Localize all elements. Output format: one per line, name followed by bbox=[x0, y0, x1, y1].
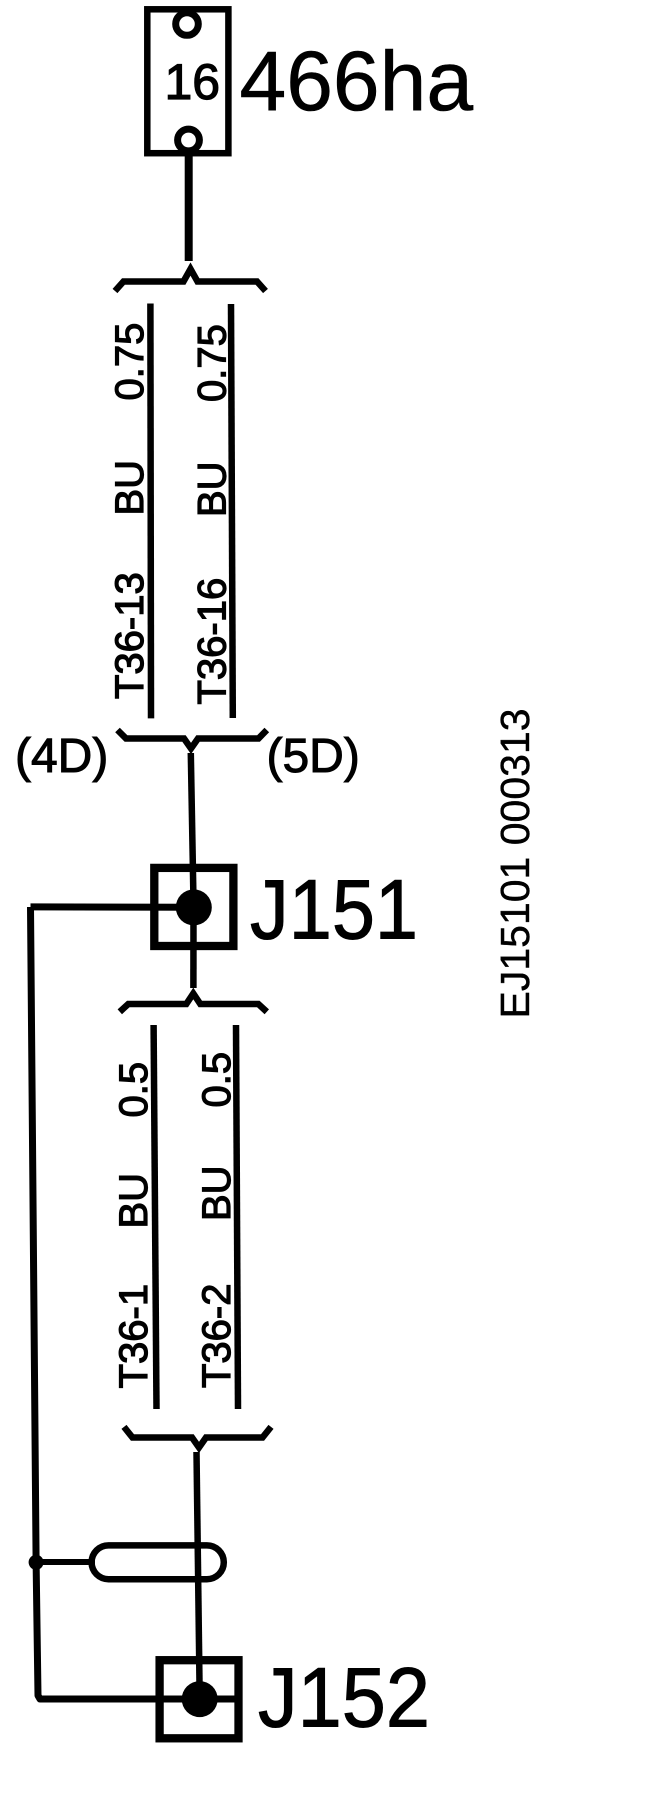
svg-text:BU: BU bbox=[195, 1165, 239, 1221]
wire from junction dot to connector sleeve bbox=[34, 1559, 95, 1565]
svg-text:J151: J151 bbox=[250, 863, 418, 957]
wire from J151 left to ground branch bbox=[31, 903, 194, 910]
svg-text:J152: J152 bbox=[258, 1651, 430, 1745]
svg-text:0.75: 0.75 bbox=[191, 324, 235, 402]
brace 4 (merges two wires) bbox=[124, 1427, 271, 1448]
wire from brace 2 to junction J151 bbox=[191, 753, 194, 907]
wire T36-1 bbox=[154, 1025, 157, 1409]
junction dot on left branch bbox=[29, 1555, 44, 1570]
svg-text:BU: BU bbox=[112, 1173, 156, 1229]
pin terminal top circle bbox=[176, 13, 199, 36]
connector sleeve (capsule) bbox=[92, 1545, 224, 1579]
junction J152 node dot bbox=[182, 1681, 218, 1717]
svg-text:466ha: 466ha bbox=[240, 34, 474, 128]
svg-text:EJ15101 000313: EJ15101 000313 bbox=[492, 708, 538, 1018]
svg-text:T36-1: T36-1 bbox=[112, 1284, 156, 1389]
svg-text:0.5: 0.5 bbox=[195, 1052, 239, 1108]
brace 2 (merges two wires) bbox=[118, 730, 267, 749]
svg-text:(4D): (4D) bbox=[15, 730, 108, 783]
svg-text:BU: BU bbox=[191, 461, 235, 517]
svg-text:(5D): (5D) bbox=[267, 730, 360, 783]
wire T36-2 bbox=[236, 1025, 238, 1409]
wire from 466ha pin 16 down to brace 1 bbox=[185, 151, 193, 261]
svg-text:T36-13: T36-13 bbox=[108, 572, 152, 699]
wire left vertical branch down to J152 bbox=[31, 907, 240, 1699]
svg-text:T36-16: T36-16 bbox=[191, 578, 235, 705]
svg-text:0.5: 0.5 bbox=[112, 1062, 156, 1118]
brace 1 (splits wire into two) bbox=[115, 269, 266, 291]
svg-text:BU: BU bbox=[108, 460, 152, 516]
junction J151 box bbox=[154, 868, 233, 946]
connector 466ha box bbox=[147, 9, 228, 153]
brace 3 (splits wire into two) bbox=[120, 994, 267, 1012]
wire T36-16 bbox=[231, 304, 233, 718]
junction J152 box bbox=[160, 1660, 239, 1738]
wire from brace 4 through connector sleeve to J152 bbox=[197, 1452, 200, 1699]
svg-text:0.75: 0.75 bbox=[108, 323, 152, 401]
svg-text:16: 16 bbox=[165, 54, 221, 110]
wire T36-13 bbox=[147, 304, 154, 719]
wire from J151 down to brace 3 bbox=[190, 907, 197, 988]
pin terminal bottom circle bbox=[178, 129, 200, 151]
junction J151 node dot bbox=[176, 889, 212, 925]
svg-text:T36-2: T36-2 bbox=[195, 1284, 239, 1389]
